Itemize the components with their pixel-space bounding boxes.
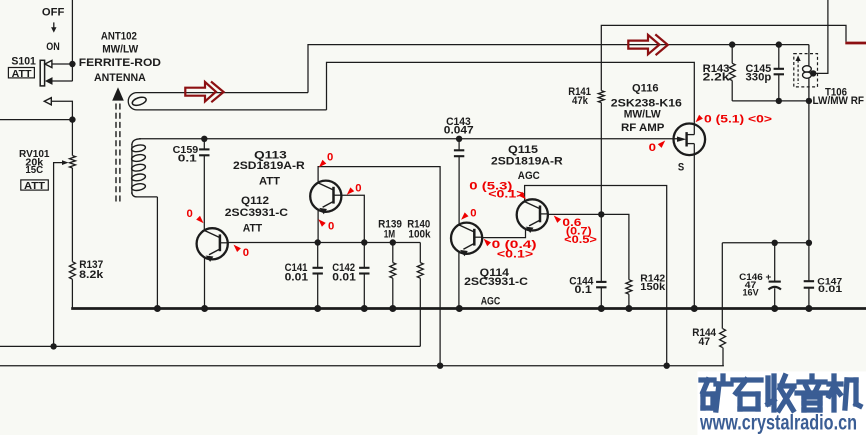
svg-text:0 (5.1) <0>: 0 (5.1) <0> (704, 114, 772, 126)
svg-text:2.2k: 2.2k (703, 72, 731, 84)
svg-text:8.2k: 8.2k (79, 269, 104, 281)
wire main left vertical from top to S101 (71, 0, 73, 81)
T106 tap to top right (810, 70, 816, 76)
svg-text:0: 0 (187, 208, 193, 220)
wire Q113 collector to B+ (318, 167, 440, 366)
svg-text:2SD1819A-R: 2SD1819A-R (491, 156, 563, 168)
svg-text:S101: S101 (11, 56, 36, 68)
resistor R140 100k (419, 243, 421, 263)
svg-text:ATT: ATT (12, 68, 33, 80)
svg-text:15C: 15C (25, 164, 43, 176)
svg-text:Q116: Q116 (632, 82, 659, 94)
wire RV101 to R137 (71, 168, 73, 262)
svg-text:47k: 47k (572, 95, 589, 107)
svg-text:ATT: ATT (243, 222, 263, 234)
wire coil cold end to ground bus (156, 197, 158, 309)
transistor Q113 2SD1819A-R ATT (310, 181, 341, 212)
svg-text:AGC: AGC (518, 170, 540, 182)
svg-text:RF AMP: RF AMP (621, 122, 664, 134)
svg-text:AGC: AGC (481, 295, 501, 307)
svg-text:2SK238-K16: 2SK238-K16 (611, 98, 682, 110)
svg-text:2SC3931-C: 2SC3931-C (464, 276, 528, 288)
transistor Q116 2SK238-K16 MW/LW RF AMP (FET) (674, 124, 706, 156)
svg-text:0: 0 (649, 142, 656, 154)
wire Q116 source to ground (693, 144, 695, 309)
wire link top to RF-out (upper run) (308, 45, 809, 93)
svg-text:47: 47 (699, 336, 711, 348)
svg-text:16V: 16V (743, 288, 760, 299)
svg-text:OFF: OFF (42, 7, 65, 19)
svg-text:MW/LW: MW/LW (102, 44, 139, 56)
svg-text:0: 0 (327, 151, 333, 163)
switch S101 (40, 60, 44, 86)
wire T106 bottom rail (732, 100, 809, 102)
svg-text:0.047: 0.047 (444, 125, 474, 137)
potentiometer RV101 20k (70, 156, 76, 168)
svg-text:<0.1>: <0.1> (488, 189, 524, 201)
wire Q113 base down (341, 195, 364, 242)
resistor R143 2.2k (729, 41, 735, 47)
label ATT box (S101) (8, 68, 34, 78)
wire Q115 base to R141/C144 node (548, 213, 602, 215)
red feed wire top right (845, 42, 866, 45)
supply rail to R144 (722, 242, 809, 244)
transistor Q112 2SC3931-C ATT (197, 228, 228, 259)
capacitor C147 0.01 (804, 280, 814, 282)
wire Q115 collector to B+ (525, 186, 667, 366)
RV101 wiper rail (0, 345, 420, 347)
wire S101 node down to RV101 (71, 120, 73, 156)
svg-text:www.crystalradio.cn: www.crystalradio.cn (699, 412, 857, 435)
resistor R137 8.2k (69, 262, 75, 280)
ground bus (thick) (71, 307, 866, 310)
wire Q112 base rail (228, 242, 421, 244)
transistor Q114 2SC3931-C AGC (451, 223, 482, 254)
svg-text:ANTENNA: ANTENNA (94, 72, 146, 84)
capacitor C144 0.1 (600, 214, 602, 282)
svg-text:150k: 150k (640, 282, 665, 293)
svg-text:2SD1819A-R: 2SD1819A-R (233, 160, 305, 172)
inductor ANT102 tuning coil (131, 144, 133, 194)
svg-text:0: 0 (328, 220, 334, 232)
label ATT box (RV101) (21, 180, 49, 190)
svg-text:MW/LW: MW/LW (624, 109, 662, 121)
capacitor C142 0.01 (363, 243, 365, 268)
svg-text:S: S (678, 161, 684, 173)
svg-text:Q115: Q115 (508, 144, 538, 156)
wire top supply run and R141 (601, 25, 846, 90)
svg-text:100k: 100k (408, 229, 431, 241)
watermark logo (CJK glyph strokes) (701, 376, 860, 410)
svg-text:0.01: 0.01 (285, 271, 309, 283)
transformer T106 LW/MW RF (794, 54, 818, 87)
signal flow arrow on ferrite rod (185, 82, 223, 103)
signal flow arrow near T106 (628, 34, 668, 55)
antenna ANT102 ferrite rod link winding (128, 93, 326, 110)
svg-text:<0.5>: <0.5> (564, 234, 597, 246)
wire left input to S101 node (0, 119, 72, 121)
capacitor C159 0.1 (201, 136, 207, 142)
svg-text:LW/MW RF: LW/MW RF (813, 95, 865, 107)
resistor R142 150k (601, 214, 629, 279)
svg-text:0.01: 0.01 (332, 271, 356, 283)
svg-text:0: 0 (470, 208, 476, 220)
supply rail B+ lower line (0, 365, 724, 367)
resistor R144 47 (721, 243, 723, 329)
wire Q114 base to Q115 emitter (482, 229, 525, 238)
resistor R139 1M (392, 243, 394, 263)
switch S101 lower contact arrow (44, 98, 51, 105)
capacitor C146 47/16V electrolytic (774, 243, 776, 282)
ground bus junction dots (154, 305, 161, 312)
capacitor C141 0.01 (317, 243, 319, 268)
svg-text:330p: 330p (746, 72, 772, 84)
main RF bus to Q116 gate (132, 139, 141, 145)
svg-text:0.01: 0.01 (818, 284, 843, 295)
wire Q114 emitter to ground (458, 252, 460, 309)
svg-text:ON: ON (46, 41, 60, 53)
svg-text:0: 0 (355, 183, 361, 195)
svg-text:0.1: 0.1 (575, 284, 592, 296)
svg-text:0.1: 0.1 (178, 152, 197, 164)
capacitor C145 330p (776, 41, 782, 47)
svg-text:0: 0 (243, 247, 249, 259)
resistor R141 47k (598, 91, 604, 103)
svg-text:2SC3931-C: 2SC3931-C (225, 207, 288, 219)
capacitor C143 0.047 (456, 136, 462, 142)
transistor Q115 2SD1819A-R AGC (517, 199, 548, 230)
wire R137 to ground bus (71, 279, 73, 308)
node S101 junction (69, 61, 75, 67)
wire link bottom to Q116 drain (lower run) (327, 62, 695, 134)
svg-text:<0.1>: <0.1> (497, 249, 533, 261)
svg-text:FERRITE-ROD: FERRITE-ROD (79, 57, 161, 69)
antenna direction arrow (up) with dashed axis (112, 87, 124, 100)
wire Q113 emitter down (317, 210, 319, 243)
svg-text:ATT: ATT (24, 180, 46, 192)
wire T106 bottom to supply node (808, 101, 810, 281)
svg-text:Q112: Q112 (241, 195, 269, 207)
watermark background box (698, 372, 866, 435)
wire Q112 emitter to ground (204, 257, 206, 308)
svg-text:ATT: ATT (259, 175, 280, 187)
svg-text:ANT102: ANT102 (101, 30, 137, 42)
svg-text:1M: 1M (384, 229, 395, 241)
RV101 wiper arrow (62, 160, 69, 165)
